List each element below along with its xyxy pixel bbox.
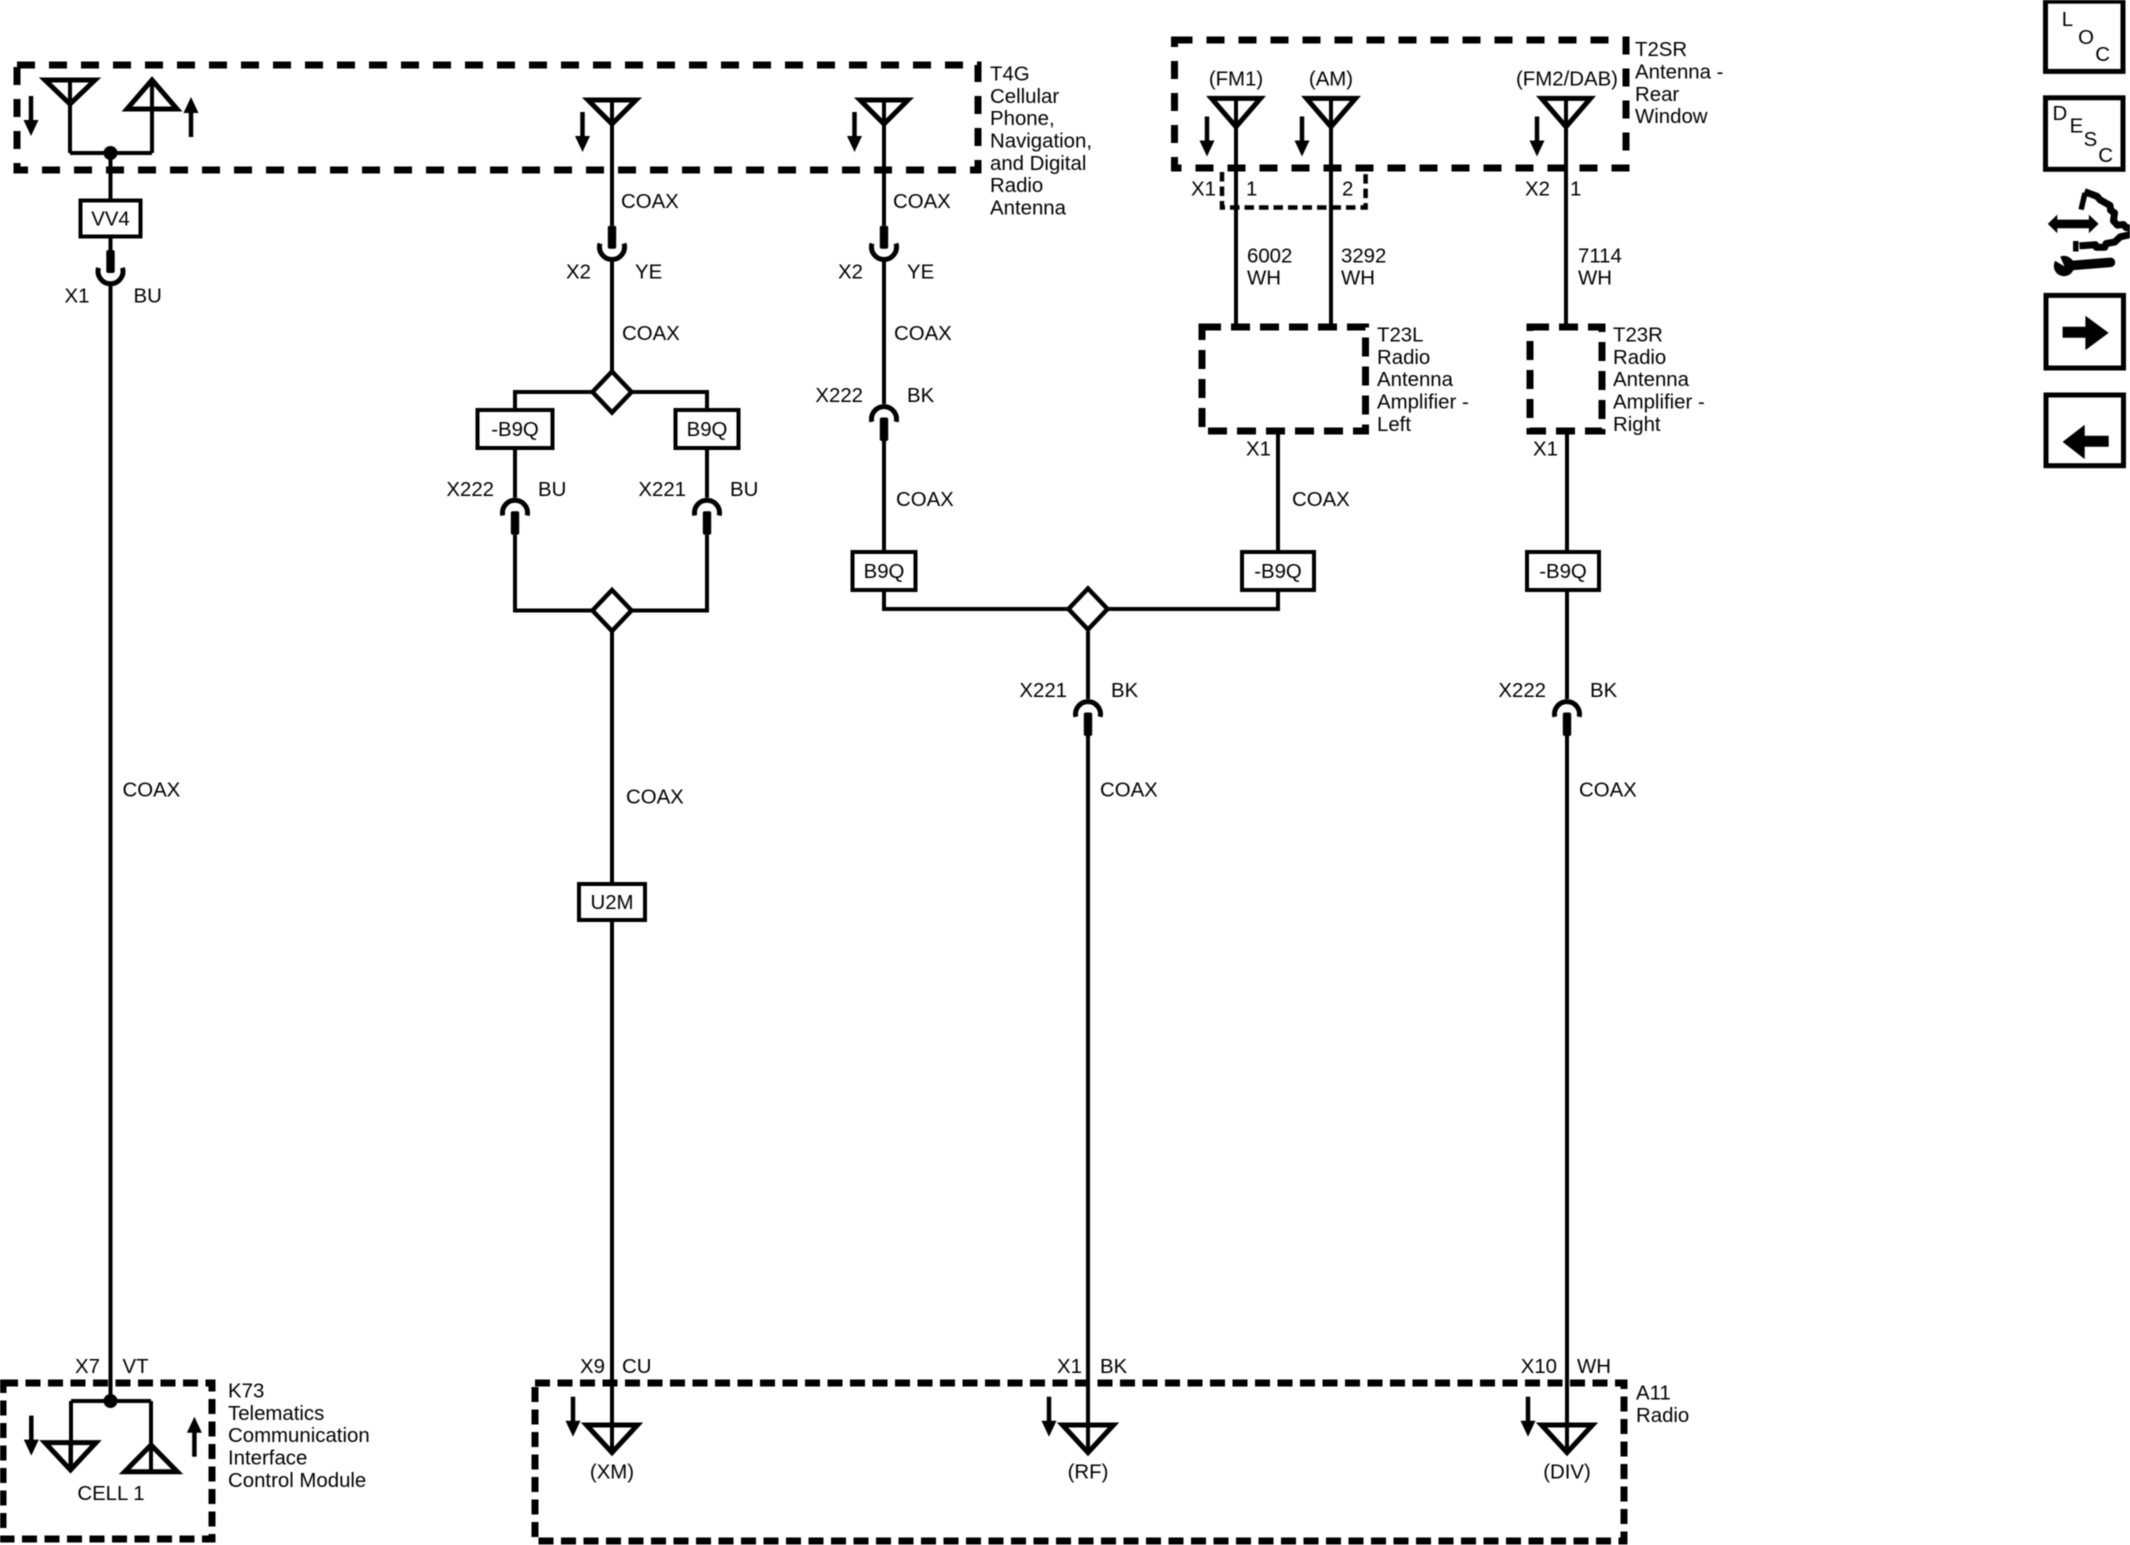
svg-text:B9Q: B9Q — [864, 561, 905, 583]
wire to B9Q — [882, 441, 886, 552]
wire B9Q to connector — [705, 448, 709, 498]
svg-text:X7: X7 — [75, 1356, 100, 1378]
svg-text:B9Q: B9Q — [687, 419, 728, 441]
wire splitter left branch — [515, 392, 593, 411]
down arrow — [1300, 117, 1305, 143]
wire T23R X1 out — [1565, 431, 1569, 552]
inline connector X222 BK (col3) — [872, 407, 897, 422]
inline connector X2 YE (col3) — [880, 226, 888, 249]
T2SR Antenna Rear Window box — [1175, 40, 1627, 168]
svg-text:D: D — [2053, 103, 2068, 125]
merge diamond 3 — [1069, 589, 1108, 630]
svg-text:COAX: COAX — [626, 787, 684, 809]
svg-text:2: 2 — [1342, 179, 1353, 201]
svg-text:1: 1 — [1570, 179, 1581, 201]
svg-text:BU: BU — [134, 286, 162, 308]
inline connector X222 BU — [502, 500, 527, 515]
down arrow — [1205, 117, 1210, 143]
option box -B9Q (T23L) — [1242, 552, 1314, 590]
antenna - cellular transmit (T4G) — [127, 80, 177, 109]
svg-text:A11: A11 — [1636, 1383, 1671, 1405]
svg-text:BK: BK — [907, 385, 935, 407]
antenna AM — [1307, 98, 1356, 126]
svg-text:X1: X1 — [1191, 179, 1216, 201]
svg-text:BK: BK — [1590, 680, 1618, 702]
svg-text:Radio: Radio — [1636, 1405, 1689, 1427]
svg-text:Radio: Radio — [1377, 347, 1430, 369]
svg-text:X2: X2 — [838, 261, 863, 283]
svg-text:Interface: Interface — [228, 1448, 307, 1470]
svg-text:COAX: COAX — [1579, 780, 1637, 802]
option box U2M — [579, 884, 645, 920]
svg-text:Phone,: Phone, — [990, 108, 1055, 130]
wire antenna to connector col3 — [882, 124, 886, 226]
down arrow — [1047, 1397, 1052, 1423]
down arrow — [571, 1397, 576, 1423]
K73 Telematics Communication Interface Control Module box — [3, 1383, 212, 1539]
option box VV4 — [81, 201, 141, 237]
wire diamond2 to U2M — [610, 631, 614, 884]
wire to merge diamond — [515, 535, 593, 611]
svg-text:-B9Q: -B9Q — [1254, 561, 1302, 583]
svg-text:and Digital: and Digital — [990, 153, 1086, 175]
svg-text:Right: Right — [1613, 414, 1661, 436]
wire T23L X1 out — [1276, 431, 1280, 552]
svg-text:X1: X1 — [1057, 1356, 1082, 1378]
down arrow — [852, 112, 857, 138]
svg-text:T23L: T23L — [1377, 325, 1423, 347]
legend icon DESC — [2046, 98, 2124, 170]
svg-text:Antenna: Antenna — [1613, 369, 1690, 391]
svg-text:WH: WH — [1578, 268, 1612, 290]
wire COAX col1 — [109, 284, 113, 1401]
wire COAX to radio DIV — [1565, 736, 1569, 1453]
svg-text:COAX: COAX — [621, 191, 679, 213]
svg-text:Radio: Radio — [990, 175, 1043, 197]
svg-text:BK: BK — [1100, 1356, 1128, 1378]
down arrow — [580, 112, 585, 138]
merge diamond 2 — [593, 590, 632, 631]
wire antenna pair junction — [68, 104, 72, 153]
T4G Cellular Phone Navigation and Digital Radio Antenna box — [17, 65, 978, 170]
inline connector X221 BK — [1076, 702, 1101, 717]
svg-text:6002: 6002 — [1247, 245, 1292, 267]
svg-text:S: S — [2084, 129, 2098, 151]
svg-text:Rear: Rear — [1635, 84, 1679, 106]
svg-text:(DIV): (DIV) — [1543, 1462, 1591, 1484]
connector box X1 pins 1 2 — [1222, 172, 1366, 208]
svg-text:WH: WH — [1247, 268, 1281, 290]
antenna - cellular receive (T4G left) — [45, 80, 95, 104]
svg-text:1: 1 — [1246, 179, 1257, 201]
svg-text:L: L — [2062, 9, 2073, 31]
svg-text:E: E — [2070, 116, 2084, 138]
svg-text:CU: CU — [622, 1356, 651, 1378]
inline connector X221 BU — [695, 500, 720, 515]
svg-text:(FM1): (FM1) — [1209, 69, 1263, 91]
down arrow — [29, 1416, 34, 1442]
svg-text:(XM): (XM) — [590, 1462, 634, 1484]
svg-text:X222: X222 — [1498, 680, 1546, 702]
svg-text:C: C — [2098, 145, 2113, 167]
svg-text:(AM): (AM) — [1309, 69, 1353, 91]
down arrow — [1526, 1397, 1531, 1423]
svg-text:X2: X2 — [566, 261, 591, 283]
svg-text:COAX: COAX — [123, 780, 181, 802]
svg-text:O: O — [2078, 27, 2094, 49]
up arrow — [184, 97, 199, 113]
svg-text:COAX: COAX — [893, 191, 951, 213]
svg-text:X1: X1 — [65, 286, 90, 308]
svg-text:X9: X9 — [580, 1356, 605, 1378]
wire antenna to connector col2 — [610, 124, 614, 226]
svg-text:Radio: Radio — [1613, 347, 1666, 369]
svg-text:3292: 3292 — [1341, 245, 1386, 267]
svg-text:Telematics: Telematics — [228, 1403, 324, 1425]
wire T4G to VV4 — [109, 153, 113, 201]
svg-text:T2SR: T2SR — [1635, 39, 1687, 61]
wire splitter right branch — [632, 392, 708, 411]
option box -B9Q (T23R) — [1527, 552, 1599, 590]
svg-text:X222: X222 — [446, 479, 494, 501]
wire to splitter — [610, 260, 614, 372]
inline connector X2 YE (col2) — [608, 226, 616, 249]
svg-text:Navigation,: Navigation, — [990, 131, 1092, 153]
svg-text:Antenna -: Antenna - — [1635, 62, 1723, 84]
svg-text:X221: X221 — [638, 479, 686, 501]
wire -B9Q to diamond3 — [1108, 590, 1279, 609]
svg-text:(FM2/DAB): (FM2/DAB) — [1516, 69, 1618, 91]
legend icon double-arrow with wrench (SI procedure icon) — [2048, 215, 2099, 234]
svg-text:COAX: COAX — [622, 323, 680, 345]
svg-text:COAX: COAX — [896, 489, 954, 511]
svg-text:WH: WH — [1341, 268, 1375, 290]
node junction dot K73 — [104, 1394, 118, 1408]
svg-text:YE: YE — [907, 261, 934, 283]
splitter diamond 1 — [593, 372, 632, 413]
svg-text:Control Module: Control Module — [228, 1470, 366, 1492]
svg-text:BK: BK — [1111, 680, 1139, 702]
antenna FM1 — [1212, 98, 1261, 126]
wire K73 internal — [71, 1399, 151, 1403]
option box -B9Q (left branch) — [478, 410, 553, 448]
antenna DIV input (A11) — [1542, 1425, 1593, 1453]
svg-text:K73: K73 — [228, 1381, 264, 1403]
antenna - navigation (T4G middle) — [588, 100, 636, 124]
svg-text:-B9Q: -B9Q — [491, 419, 539, 441]
wire VV4 to connector — [109, 237, 113, 251]
svg-text:Communication: Communication — [228, 1425, 370, 1447]
svg-text:T23R: T23R — [1613, 325, 1663, 347]
antenna FM2/DAB — [1542, 98, 1591, 126]
svg-text:U2M: U2M — [590, 892, 633, 914]
svg-text:Cellular: Cellular — [990, 86, 1059, 108]
inline connector X222 BK (right) — [1555, 702, 1580, 717]
T23L Radio Antenna Amplifier Left box — [1202, 327, 1366, 431]
svg-text:Antenna: Antenna — [990, 197, 1067, 219]
svg-text:CELL 1: CELL 1 — [77, 1483, 144, 1505]
wire U2M to radio — [610, 920, 614, 1453]
svg-text:VT: VT — [123, 1356, 149, 1378]
wire B9Q to diamond3 — [884, 590, 1069, 609]
svg-text:(RF): (RF) — [1068, 1462, 1109, 1484]
wire -B9Q to connector — [513, 448, 517, 498]
antenna XM input (A11) — [587, 1425, 638, 1453]
wire AM to T23L — [1329, 127, 1333, 327]
down arrow — [29, 96, 34, 122]
svg-text:COAX: COAX — [1292, 489, 1350, 511]
svg-text:T4G: T4G — [990, 64, 1030, 86]
T23R Radio Antenna Amplifier Right box — [1530, 327, 1602, 431]
svg-text:7114: 7114 — [1578, 245, 1622, 267]
wire COAX to radio RF — [1086, 736, 1090, 1453]
antenna - digital radio (T4G right) — [860, 100, 908, 124]
svg-text:Amplifier -: Amplifier - — [1613, 392, 1705, 414]
svg-text:YE: YE — [635, 261, 662, 283]
svg-text:X1: X1 — [1533, 439, 1558, 461]
option box B9Q (col3) — [853, 552, 916, 590]
wire to connector X222 — [882, 260, 886, 404]
antenna RF input (A11) — [1063, 1425, 1114, 1453]
wire FM1 to T23L — [1234, 127, 1238, 327]
svg-text:COAX: COAX — [894, 323, 952, 345]
wire FM2 to T23R — [1564, 127, 1568, 327]
svg-text:BU: BU — [538, 479, 566, 501]
svg-text:-B9Q: -B9Q — [1539, 561, 1587, 583]
wire to merge diamond — [632, 535, 708, 611]
node junction dot — [104, 146, 118, 160]
svg-text:WH: WH — [1577, 1356, 1611, 1378]
svg-text:VV4: VV4 — [91, 208, 130, 230]
legend icon arrow right — [2046, 295, 2124, 368]
svg-text:C: C — [2095, 44, 2110, 66]
legend icon LOC — [2046, 1, 2124, 71]
svg-text:Antenna: Antenna — [1377, 369, 1454, 391]
inline connector X1 BU — [106, 250, 114, 273]
A11 Radio box — [535, 1383, 1624, 1541]
wire -B9Q to connector X222 — [1565, 590, 1569, 699]
up arrow — [187, 1417, 202, 1433]
svg-text:Left: Left — [1377, 414, 1411, 436]
svg-text:X2: X2 — [1525, 179, 1550, 201]
svg-text:Amplifier -: Amplifier - — [1377, 392, 1469, 414]
svg-text:X1: X1 — [1246, 439, 1271, 461]
option box B9Q (right branch) — [676, 410, 739, 448]
svg-text:X222: X222 — [815, 385, 863, 407]
svg-text:Window: Window — [1635, 106, 1708, 128]
svg-text:X221: X221 — [1019, 680, 1067, 702]
down arrow — [1535, 117, 1540, 143]
antenna CELL receive (K73) — [45, 1443, 96, 1470]
wire diamond3 down — [1086, 630, 1090, 700]
antenna CELL transmit (K73) — [125, 1445, 178, 1472]
svg-text:COAX: COAX — [1100, 780, 1158, 802]
svg-text:X10: X10 — [1521, 1356, 1557, 1378]
svg-text:BU: BU — [730, 479, 758, 501]
legend icon arrow left — [2046, 395, 2124, 466]
